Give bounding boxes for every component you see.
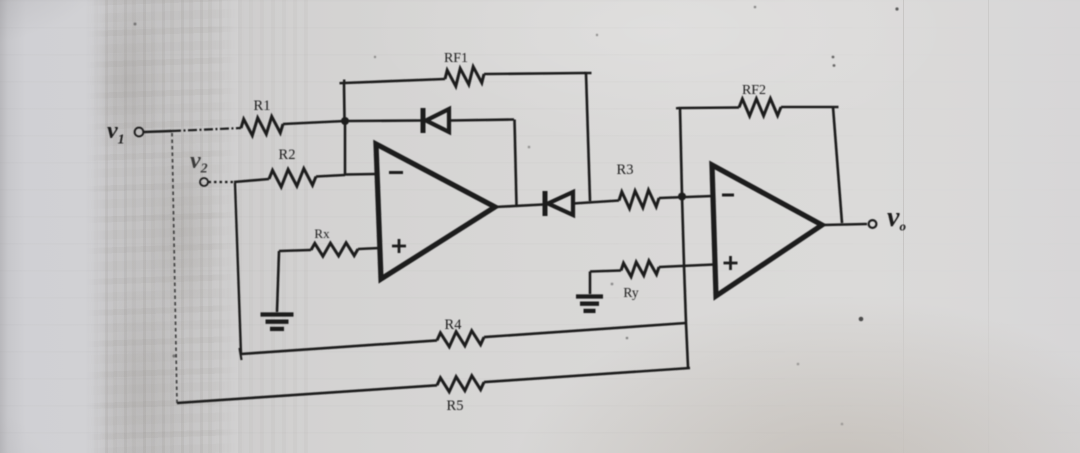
svg-text:RF2: RF2 (742, 83, 766, 98)
svg-text:vo: vo (887, 202, 906, 234)
svg-text:v1: v1 (107, 118, 125, 148)
svg-text:Rx: Rx (314, 226, 330, 241)
svg-text:R1: R1 (254, 98, 271, 114)
svg-text:Ry: Ry (623, 285, 638, 300)
svg-text:R4: R4 (445, 317, 463, 333)
svg-text:v2: v2 (190, 148, 208, 177)
svg-text:R3: R3 (617, 162, 634, 178)
svg-text:RF1: RF1 (444, 51, 468, 66)
svg-text:R5: R5 (447, 398, 464, 414)
svg-text:R2: R2 (279, 147, 296, 163)
